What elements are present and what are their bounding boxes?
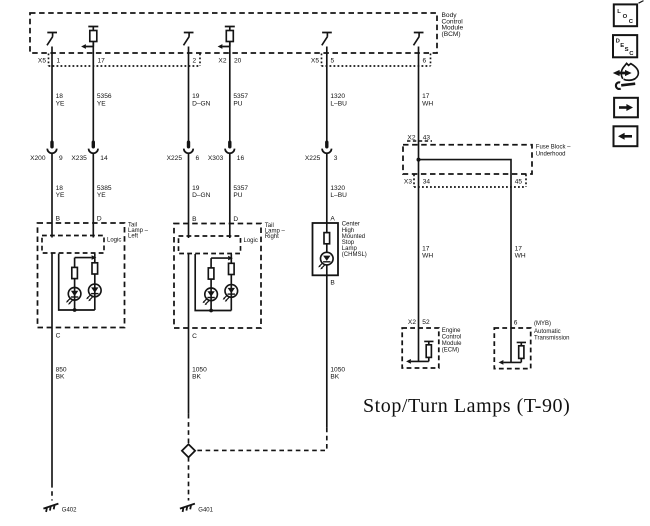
- icon next (right arrow): [614, 98, 638, 118]
- CHMSL LED: [318, 252, 333, 269]
- wire 19 D-GN lower: [188, 154, 190, 239]
- svg-text:18: 18: [56, 185, 64, 192]
- connector X2 pin 43 row: [407, 140, 432, 142]
- transmission driver: [499, 342, 526, 364]
- svg-text:Logic: Logic: [244, 238, 258, 244]
- svg-text:1320: 1320: [330, 93, 345, 100]
- svg-text:(BCM): (BCM): [442, 31, 461, 38]
- junction dot: [209, 309, 213, 313]
- svg-text:BK: BK: [56, 374, 65, 381]
- svg-text:1050: 1050: [330, 366, 345, 373]
- branch arrow: [92, 255, 97, 260]
- page corner tick: [639, 1, 644, 4]
- branch wire: [75, 258, 92, 268]
- lamp housing box: Tail Lamp - Left: [38, 223, 125, 328]
- svg-text:WH: WH: [422, 101, 433, 108]
- switch: pin 6: [414, 33, 424, 46]
- svg-text:BK: BK: [330, 374, 339, 381]
- svg-text:O: O: [623, 14, 628, 20]
- svg-text:WH: WH: [422, 253, 433, 260]
- resistor left branch: [208, 268, 214, 279]
- tail lamp left assembly: [38, 215, 125, 339]
- svg-text:6: 6: [514, 320, 518, 327]
- wire to right LED: [94, 274, 96, 310]
- svg-text:L: L: [617, 9, 621, 15]
- svg-text:B: B: [192, 216, 197, 223]
- ground wire (pin C) inside housing: [51, 253, 53, 328]
- svg-text:17: 17: [422, 93, 430, 100]
- LED left: [203, 288, 218, 305]
- svg-text:D–GN: D–GN: [192, 101, 211, 108]
- branch wire: [211, 258, 228, 268]
- svg-text:9: 9: [59, 155, 63, 162]
- svg-text:G401: G401: [198, 508, 213, 514]
- inline connector X225 pin 6: [184, 142, 193, 153]
- svg-text:C: C: [629, 19, 634, 25]
- inline connector X200 pin 9: [47, 142, 56, 153]
- tail lamp right assembly: [174, 216, 261, 340]
- svg-text:17: 17: [515, 245, 523, 252]
- svg-text:X5: X5: [38, 58, 46, 65]
- wire to left LED: [74, 279, 76, 310]
- svg-text:X3: X3: [404, 178, 412, 185]
- svg-text:D: D: [616, 39, 620, 45]
- inline connector X303 pin 16: [225, 142, 234, 153]
- LED right: [223, 285, 238, 302]
- svg-text:Automatic: Automatic: [534, 329, 561, 335]
- CHMSL wire to pin B: [326, 265, 328, 275]
- svg-text:C: C: [56, 333, 61, 340]
- svg-text:Left: Left: [128, 234, 138, 240]
- icon back (left arrow): [614, 126, 638, 146]
- ground G402: [43, 504, 58, 512]
- LED right: [86, 284, 101, 301]
- CHMSL housing box: [313, 223, 339, 275]
- svg-text:C: C: [629, 51, 634, 57]
- wire 5357 PU lower: [229, 154, 231, 239]
- wire 1050 BK (CHMSL): [326, 275, 328, 427]
- svg-text:43: 43: [423, 134, 431, 141]
- wire to left LED: [210, 279, 212, 310]
- ground G401: [180, 504, 195, 512]
- svg-text:Logic: Logic: [107, 238, 121, 244]
- wire 1050 BK (tail lamp right): [188, 328, 190, 414]
- bus wire inside fuse block: [419, 160, 512, 363]
- svg-text:Stop/Turn Lamps (T-90): Stop/Turn Lamps (T-90): [363, 395, 570, 417]
- svg-text:Transmission: Transmission: [534, 336, 569, 342]
- svg-text:1320: 1320: [330, 185, 345, 192]
- svg-text:X235: X235: [71, 155, 87, 162]
- svg-text:Fuse Block –: Fuse Block –: [536, 145, 571, 151]
- svg-text:A: A: [330, 215, 335, 222]
- svg-text:5357: 5357: [233, 93, 248, 100]
- svg-text:G402: G402: [62, 508, 77, 514]
- svg-text:(MYB): (MYB): [534, 321, 551, 327]
- svg-text:Lamp: Lamp: [342, 246, 358, 252]
- svg-text:PU: PU: [233, 192, 242, 199]
- inline connector X235 pin 14: [89, 142, 98, 153]
- svg-text:YE: YE: [56, 192, 65, 199]
- svg-text:B: B: [330, 280, 335, 287]
- svg-text:16: 16: [237, 155, 245, 162]
- svg-text:Mounted: Mounted: [342, 234, 365, 240]
- fuse block box: [403, 145, 532, 174]
- svg-text:5: 5: [331, 58, 335, 65]
- LED left: [66, 288, 81, 305]
- ECM driver: [406, 341, 433, 363]
- module box: Body Control Module (BCM): [30, 13, 437, 53]
- dashed wire to G402: [51, 483, 53, 501]
- ground wire (pin C) inside housing: [188, 254, 190, 329]
- module box: Automatic Transmission: [494, 328, 530, 369]
- svg-text:X5: X5: [311, 58, 319, 65]
- svg-text:L–BU: L–BU: [330, 192, 347, 199]
- svg-text:1050: 1050: [192, 366, 207, 373]
- svg-text:L–BU: L–BU: [330, 101, 347, 108]
- CHMSL internal wire top: [326, 223, 328, 233]
- branch arrow: [228, 256, 233, 261]
- svg-text:850: 850: [56, 366, 67, 373]
- connector X3 row (pins 34,45): [414, 174, 526, 187]
- svg-text:(CHMSL): (CHMSL): [342, 252, 367, 258]
- svg-text:3: 3: [334, 155, 338, 162]
- svg-text:X2: X2: [218, 58, 226, 65]
- svg-text:D: D: [233, 216, 238, 223]
- svg-text:Stop: Stop: [342, 240, 355, 246]
- svg-text:High: High: [342, 228, 354, 234]
- svg-text:X2: X2: [407, 134, 415, 141]
- svg-text:Underhood: Underhood: [536, 151, 566, 157]
- icon DESC: [613, 35, 637, 57]
- lamp housing box: Tail Lamp - Right: [174, 224, 261, 329]
- wire to right LED: [230, 275, 232, 311]
- svg-text:45: 45: [515, 178, 523, 185]
- wire 17 WH (BCM to ECM): [418, 47, 420, 362]
- module box: Engine Control Module (ECM): [402, 328, 439, 368]
- switch: stop lamp feed (pin 1): [47, 33, 57, 46]
- svg-text:Control: Control: [442, 335, 461, 341]
- svg-text:Module: Module: [442, 341, 462, 347]
- svg-text:1: 1: [57, 58, 61, 65]
- svg-text:20: 20: [234, 58, 242, 65]
- svg-text:S: S: [625, 47, 629, 53]
- svg-text:YE: YE: [97, 192, 106, 199]
- svg-text:18: 18: [56, 93, 64, 100]
- wire 18 YE lower: [51, 154, 53, 238]
- switch: pin 2: [184, 33, 194, 46]
- dashed wire to G401: [188, 457, 190, 501]
- driver output (pin 17): [81, 27, 98, 49]
- svg-text:17: 17: [422, 245, 430, 252]
- svg-text:X225: X225: [167, 155, 183, 162]
- svg-text:D: D: [97, 215, 102, 222]
- svg-text:6: 6: [196, 155, 200, 162]
- resistor right branch: [92, 263, 98, 274]
- wire 19 D-GN upper: [188, 47, 190, 143]
- svg-text:14: 14: [100, 155, 108, 162]
- feed wire from logic: [230, 254, 232, 263]
- wire 1320 L-BU upper: [326, 47, 328, 143]
- svg-text:X225: X225: [305, 155, 321, 162]
- svg-text:Center: Center: [342, 222, 360, 228]
- svg-text:BK: BK: [192, 374, 201, 381]
- wire 1320 L-BU lower: [326, 154, 328, 224]
- logic block: [42, 236, 104, 254]
- logic block: [179, 236, 241, 254]
- svg-text:Right: Right: [265, 234, 279, 240]
- svg-text:19: 19: [192, 93, 200, 100]
- svg-text:2: 2: [193, 58, 197, 65]
- junction dot: [417, 158, 421, 162]
- return wire left side: [195, 254, 231, 311]
- wire 5356 YE lower: [92, 154, 94, 238]
- dashed wire to splice: [188, 414, 190, 445]
- dashed wire CHMSL to splice: [195, 428, 327, 451]
- wire 850 BK: [51, 328, 53, 484]
- svg-text:5356: 5356: [97, 93, 112, 100]
- svg-text:52: 52: [422, 319, 430, 326]
- svg-text:6: 6: [423, 58, 427, 65]
- svg-text:17: 17: [98, 58, 106, 65]
- svg-text:WH: WH: [515, 253, 526, 260]
- inline connector X225 pin 3: [322, 142, 331, 153]
- svg-text:YE: YE: [56, 101, 65, 108]
- svg-text:C: C: [192, 333, 197, 340]
- svg-text:X303: X303: [208, 155, 224, 162]
- return wire left side: [59, 254, 95, 311]
- connector X5 (pins 1,17,2): [49, 54, 201, 67]
- switch: pin 5: [322, 33, 332, 46]
- driver output (pin 20): [218, 27, 235, 49]
- junction dot: [73, 308, 77, 312]
- feed wire from logic: [94, 254, 96, 263]
- svg-text:Engine: Engine: [442, 328, 461, 334]
- svg-text:D–GN: D–GN: [192, 192, 211, 199]
- CHMSL resistor: [324, 233, 330, 244]
- svg-text:(ECM): (ECM): [442, 348, 459, 354]
- svg-text:B: B: [56, 215, 61, 222]
- svg-text:X200: X200: [30, 155, 46, 162]
- resistor left branch: [72, 267, 78, 278]
- splice diamond: [182, 444, 195, 457]
- CHMSL wire: [326, 244, 328, 253]
- svg-text:19: 19: [192, 185, 200, 192]
- icon repair (arrow + wrench): [613, 63, 639, 89]
- wire 18 YE upper: [51, 47, 53, 143]
- wire 5357 PU upper: [229, 42, 231, 143]
- resistor right branch: [229, 263, 235, 274]
- icon LOC: [614, 4, 637, 26]
- svg-text:5357: 5357: [233, 185, 248, 192]
- svg-text:PU: PU: [233, 101, 242, 108]
- connector X5 (pins 5,6): [322, 54, 431, 67]
- wire 5356 YE upper: [92, 42, 94, 143]
- svg-text:X2: X2: [408, 319, 416, 326]
- svg-text:YE: YE: [97, 101, 106, 108]
- svg-text:34: 34: [423, 178, 431, 185]
- svg-text:5385: 5385: [97, 185, 112, 192]
